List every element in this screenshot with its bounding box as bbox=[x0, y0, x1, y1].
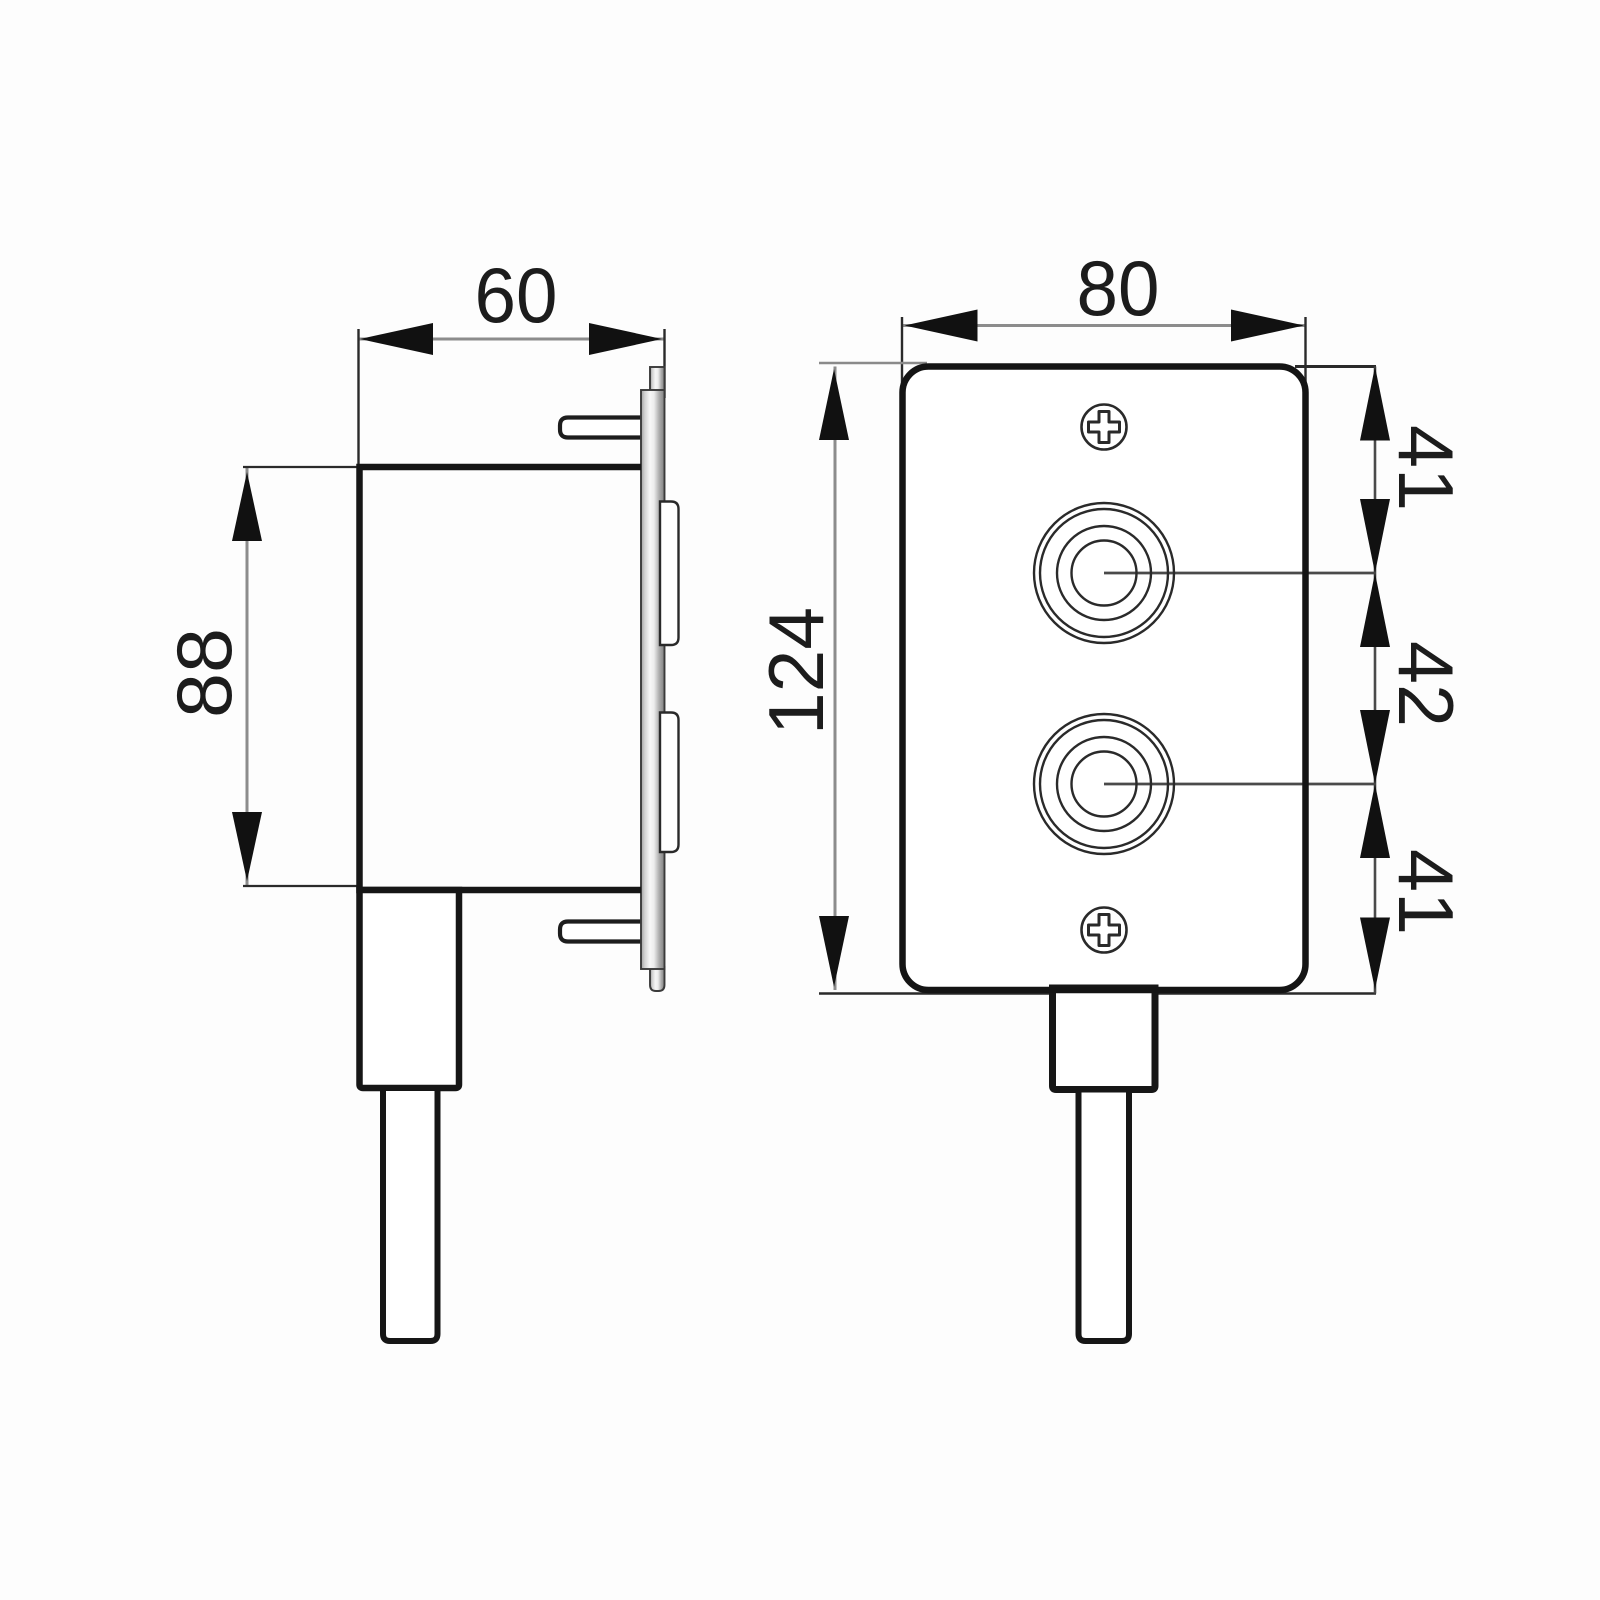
dim 60 line bbox=[359, 338, 664, 341]
dim 88 arrow down bbox=[232, 812, 262, 881]
front plate main (side) bbox=[641, 390, 665, 969]
dim 60 arrow right bbox=[589, 323, 662, 355]
dim 60 extension line left bbox=[357, 329, 359, 465]
front plate top nub (side) bbox=[650, 367, 665, 392]
dim 60 extension line right bbox=[663, 329, 665, 398]
front box outline bbox=[903, 367, 1306, 991]
button 2 (front) bbox=[1034, 714, 1174, 854]
front box fill bbox=[903, 367, 1306, 991]
arrows 41/42/41 bbox=[1360, 367, 1390, 441]
button 1 (front) bbox=[1034, 503, 1174, 643]
leader line button 2 bbox=[1104, 783, 1375, 786]
dim 80 extension right bbox=[1304, 317, 1306, 400]
dim 124 line bbox=[834, 367, 837, 991]
cable gland (side) bbox=[360, 890, 460, 1088]
dim 124 arrow down bbox=[819, 916, 849, 987]
svg-text:41: 41 bbox=[1382, 849, 1470, 935]
front gland bbox=[1053, 988, 1156, 1090]
dim 60 arrow left bbox=[360, 323, 433, 355]
dim 88 extension top bbox=[243, 466, 357, 468]
button 2 (side) bbox=[660, 713, 679, 853]
dim 88 extension bottom bbox=[243, 885, 357, 887]
svg-text:60: 60 bbox=[475, 251, 558, 339]
front plate bottom nub (side) bbox=[650, 967, 665, 991]
svg-text:88: 88 bbox=[160, 628, 248, 718]
dim 88 line bbox=[246, 467, 249, 886]
button 1 (side) bbox=[660, 502, 679, 646]
dim 88 arrow up bbox=[232, 472, 262, 541]
enclosure box (side) bbox=[360, 467, 642, 890]
svg-text:124: 124 bbox=[752, 607, 840, 735]
dim 124 extension top bbox=[819, 362, 927, 365]
screw top bbox=[1082, 405, 1127, 450]
mounting tab upper (side) bbox=[560, 418, 643, 438]
bottom extension line (124 and 41) bbox=[819, 992, 1376, 994]
cable (side) bbox=[383, 1088, 438, 1341]
svg-text:42: 42 bbox=[1382, 641, 1470, 727]
dims 41/42/41 line bbox=[1374, 367, 1377, 994]
front cable bbox=[1079, 1090, 1130, 1342]
dim 80 line bbox=[903, 324, 1306, 327]
dim 80 extension left bbox=[901, 317, 903, 404]
svg-text:41: 41 bbox=[1382, 425, 1470, 511]
mounting tab lower (side) bbox=[560, 922, 643, 942]
dim 80 arrow left bbox=[905, 310, 978, 342]
dim 80 arrow right bbox=[1231, 310, 1304, 342]
leader line button 1 bbox=[1104, 572, 1375, 575]
screw bottom bbox=[1082, 908, 1127, 953]
dim 124 arrow up bbox=[819, 369, 849, 440]
svg-text:80: 80 bbox=[1077, 244, 1160, 332]
dim 41 top extension bbox=[1295, 365, 1376, 368]
